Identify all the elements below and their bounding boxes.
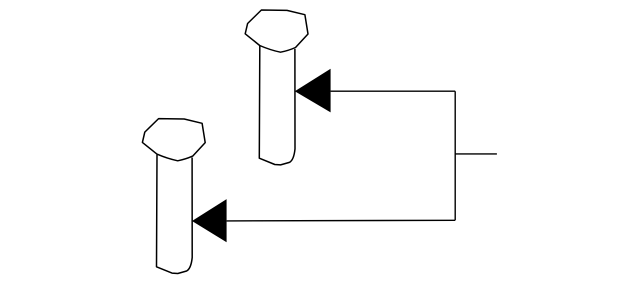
wire: vertical bus line	[454, 91, 456, 220]
bolt B1 (upper) hex head	[245, 10, 308, 52]
bolt B1 (upper) shank	[259, 46, 295, 165]
wire: middle stub to the right	[455, 153, 497, 155]
bolt B2 (lower) shank	[157, 155, 193, 274]
arrow pointer to bolt B1	[295, 69, 331, 113]
bolt B2 (lower) hex head	[142, 119, 205, 161]
wire: top horizontal leader from arrow B1 to vertical bus	[331, 90, 456, 92]
arrow pointer to bolt B2	[192, 199, 227, 242]
wire: bottom horizontal leader from arrow B2 to vertical bus	[227, 219, 456, 222]
